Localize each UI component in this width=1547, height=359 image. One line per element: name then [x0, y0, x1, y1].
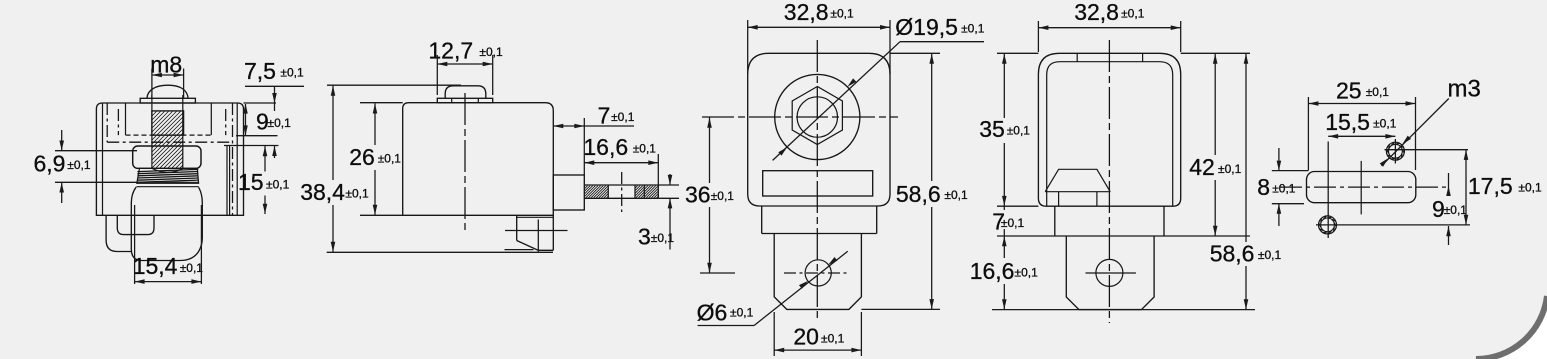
- svg-text:16,6: 16,6: [583, 134, 628, 160]
- svg-text:58,6: 58,6: [1210, 241, 1255, 267]
- svg-text:8: 8: [1257, 174, 1270, 200]
- svg-text:±0,1: ±0,1: [180, 261, 204, 275]
- svg-text:26: 26: [349, 144, 375, 170]
- svg-text:35: 35: [979, 116, 1005, 142]
- svg-text:±0,1: ±0,1: [830, 6, 854, 20]
- svg-text:32,8: 32,8: [1074, 0, 1119, 25]
- svg-text:±0,1: ±0,1: [345, 186, 369, 200]
- svg-text:42: 42: [1189, 154, 1215, 180]
- svg-text:±0,1: ±0,1: [1444, 203, 1468, 217]
- svg-text:15,5: 15,5: [1325, 109, 1370, 135]
- svg-text:±0,1: ±0,1: [633, 141, 657, 155]
- svg-text:±0,1: ±0,1: [961, 21, 985, 35]
- svg-text:±0,1: ±0,1: [1272, 181, 1296, 195]
- svg-text:±0,1: ±0,1: [1001, 216, 1025, 230]
- svg-text:38,4: 38,4: [300, 179, 345, 205]
- svg-text:±0,1: ±0,1: [611, 110, 635, 124]
- svg-text:±0,1: ±0,1: [1258, 248, 1282, 262]
- svg-text:±0,1: ±0,1: [280, 65, 304, 79]
- svg-text:±0,1: ±0,1: [1015, 265, 1039, 279]
- svg-text:36: 36: [685, 182, 711, 208]
- svg-text:7,5: 7,5: [244, 58, 276, 84]
- svg-text:17,5: 17,5: [1468, 173, 1513, 199]
- svg-text:±0,1: ±0,1: [711, 189, 735, 203]
- svg-text:Ø19,5: Ø19,5: [895, 14, 958, 40]
- svg-text:20: 20: [793, 324, 819, 350]
- svg-text:±0,1: ±0,1: [1121, 6, 1145, 20]
- svg-text:6,9: 6,9: [34, 151, 66, 177]
- svg-text:±0,1: ±0,1: [651, 231, 675, 245]
- svg-text:±0,1: ±0,1: [266, 178, 290, 192]
- svg-text:7: 7: [598, 103, 611, 129]
- svg-text:±0,1: ±0,1: [1518, 180, 1542, 194]
- svg-text:58,6: 58,6: [896, 181, 941, 207]
- svg-text:±0,1: ±0,1: [944, 188, 968, 202]
- svg-text:±0,1: ±0,1: [1218, 162, 1242, 176]
- svg-text:±0,1: ±0,1: [268, 116, 292, 130]
- svg-text:±0,1: ±0,1: [479, 45, 503, 59]
- svg-text:±0,1: ±0,1: [730, 306, 754, 320]
- svg-text:12,7: 12,7: [428, 38, 473, 64]
- svg-text:±0,1: ±0,1: [821, 331, 845, 345]
- svg-text:±0,1: ±0,1: [378, 151, 402, 165]
- svg-text:16,6: 16,6: [970, 258, 1015, 284]
- svg-text:15: 15: [238, 169, 264, 195]
- svg-text:m3: m3: [1448, 75, 1481, 102]
- svg-text:±0,1: ±0,1: [1366, 85, 1390, 99]
- svg-text:±0,1: ±0,1: [1007, 124, 1031, 138]
- svg-text:Ø6: Ø6: [697, 299, 728, 325]
- svg-text:m8: m8: [150, 51, 182, 77]
- svg-text:15,4: 15,4: [133, 253, 178, 279]
- svg-text:32,8: 32,8: [784, 0, 829, 25]
- svg-text:±0,1: ±0,1: [67, 158, 91, 172]
- svg-text:3: 3: [638, 224, 651, 250]
- svg-text:25: 25: [1336, 78, 1362, 104]
- svg-text:±0,1: ±0,1: [1373, 117, 1397, 131]
